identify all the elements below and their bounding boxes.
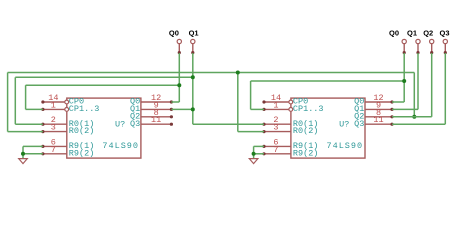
svg-text:11: 11 <box>151 115 161 125</box>
wire net-C from U?(left) pin12 <box>171 101 179 103</box>
wire net-B left vertical <box>14 77 16 124</box>
wire net-D terminal vertical <box>403 53 405 102</box>
svg-text:R9(2): R9(2) <box>293 148 319 158</box>
terminal pin Q2 <box>430 39 434 54</box>
svg-text:Q1: Q1 <box>407 28 417 37</box>
junction gnd-left <box>21 152 25 156</box>
svg-text:CP1..3: CP1..3 <box>293 104 324 114</box>
svg-text:74LS90: 74LS90 <box>327 141 364 151</box>
wire net-G from U?(right) pin11 <box>392 123 445 125</box>
svg-text:7: 7 <box>273 145 278 155</box>
svg-text:7: 7 <box>51 145 56 155</box>
svg-text:Q3: Q3 <box>440 28 450 37</box>
svg-text:U?: U? <box>339 119 349 129</box>
svg-text:CP1..3: CP1..3 <box>69 104 100 114</box>
svg-text:Q0: Q0 <box>169 28 179 37</box>
wire net-D horizontal <box>251 80 405 82</box>
U? pin 3 (left side, left) <box>41 130 67 133</box>
svg-text:74LS90: 74LS90 <box>102 141 139 151</box>
svg-text:3: 3 <box>273 123 278 133</box>
junction gnd-right <box>252 152 256 156</box>
U? pin 2 (left side, left) <box>41 123 67 126</box>
wire net-A left vertical <box>7 73 9 132</box>
U? pin 2 (right side, left) <box>262 123 291 126</box>
U? pin 8 (right side, right) <box>365 115 394 118</box>
svg-text:Q3: Q3 <box>354 119 364 129</box>
wire net-D vertical to pin1 <box>250 81 252 109</box>
wire net-D from U?(right) pin12 <box>392 101 404 103</box>
ground symbol (right) <box>249 159 258 164</box>
wire gnd-right from pin6 <box>254 145 264 147</box>
wire net-B from U?(left) pin9 <box>171 108 192 110</box>
wire net-C horizontal <box>26 84 180 86</box>
junction net-C at horizontal <box>177 83 181 87</box>
U? pin 6 (left side, left) <box>41 145 67 148</box>
svg-text:1: 1 <box>273 100 278 110</box>
wire net-A right vertical <box>413 73 415 117</box>
wire gnd-left stub <box>22 154 24 159</box>
terminal pin Q3 <box>443 39 447 54</box>
wire net-E terminal vertical <box>417 53 419 109</box>
svg-text:Q1: Q1 <box>189 28 199 37</box>
wire net-F from U?(right) pin8 <box>392 116 432 118</box>
wire gnd-right vertical <box>253 146 255 153</box>
junction net-D at terminal vertical <box>402 79 406 83</box>
ground symbol (left) <box>19 159 28 164</box>
U? pin 9 (right side, right) <box>365 108 394 111</box>
svg-text:Q0: Q0 <box>389 28 399 37</box>
terminal pin Q0 <box>177 39 181 54</box>
U? pin 12 (right side, right) <box>365 100 394 103</box>
wire net-A top horizontal <box>8 72 415 74</box>
terminal pin Q1 <box>416 39 420 54</box>
U? pin 12 (left side, right) <box>141 100 173 103</box>
wire gnd-left vertical <box>22 146 24 153</box>
wire gnd-right stub <box>253 154 255 159</box>
IC U? 74LS90 (left) body <box>67 98 141 158</box>
svg-text:Q3: Q3 <box>130 119 140 129</box>
wire net-C terminal vertical <box>178 53 180 102</box>
svg-text:3: 3 <box>51 123 56 133</box>
wire net-A mid vertical <box>237 73 239 132</box>
U? pin 7 (right side, left) <box>262 152 291 155</box>
svg-text:11: 11 <box>373 115 383 125</box>
wire gnd-left from pin7 <box>23 153 43 155</box>
wire net-A to U?(right) pin3 <box>238 131 264 133</box>
wire net-G terminal vertical <box>444 53 446 124</box>
svg-text:U?: U? <box>115 119 125 129</box>
wire net-C to U?(left) pin1 <box>26 108 43 110</box>
wire gnd-right from pin7 <box>254 153 264 155</box>
svg-text:R0(2): R0(2) <box>293 126 319 136</box>
junction net-B at pin9 <box>191 107 195 111</box>
U? pin 14 (left side, left) <box>41 100 68 104</box>
junction net-B at horizontal <box>191 75 195 79</box>
U? pin 14 (right side, left) <box>262 100 292 104</box>
U? pin 3 (right side, left) <box>262 130 291 133</box>
U? pin 6 (right side, left) <box>262 145 291 148</box>
U? pin 8 (left side, right) <box>141 115 173 118</box>
svg-text:R0(2): R0(2) <box>69 126 95 136</box>
svg-text:R9(2): R9(2) <box>69 148 95 158</box>
U? pin 7 (left side, left) <box>41 152 67 155</box>
IC U? 74LS90 (right) body <box>291 98 365 158</box>
wire net-F terminal vertical <box>431 53 433 117</box>
U? pin 1 (right side, left) <box>262 108 292 112</box>
U? pin 11 (right side, right) <box>365 123 394 126</box>
svg-text:Q2: Q2 <box>423 28 433 37</box>
wire net-B to U?(right) pin2 <box>193 123 264 125</box>
U? pin 1 (left side, left) <box>41 108 68 112</box>
junction net-A into Q2 net <box>412 115 416 119</box>
svg-text:1: 1 <box>51 100 56 110</box>
wire net-A to U?(left) pin3 <box>8 131 43 133</box>
wire net-B horizontal <box>15 76 193 78</box>
terminal pin Q1 <box>191 39 195 54</box>
wire net-B to U?(left) pin2 <box>15 123 43 125</box>
junction net-A mid tap <box>236 71 240 75</box>
wire gnd-left from pin6 <box>23 145 43 147</box>
U? pin 11 (left side, right) <box>141 123 173 126</box>
wire net-D to U?(right) pin1 <box>251 108 264 110</box>
wire net-C left vertical <box>25 85 27 109</box>
terminal pin Q0 <box>402 39 406 54</box>
U? pin 9 (left side, right) <box>141 108 173 111</box>
wire net-E from U?(right) pin9 <box>392 108 418 110</box>
wire net-B terminal vertical <box>192 53 194 124</box>
